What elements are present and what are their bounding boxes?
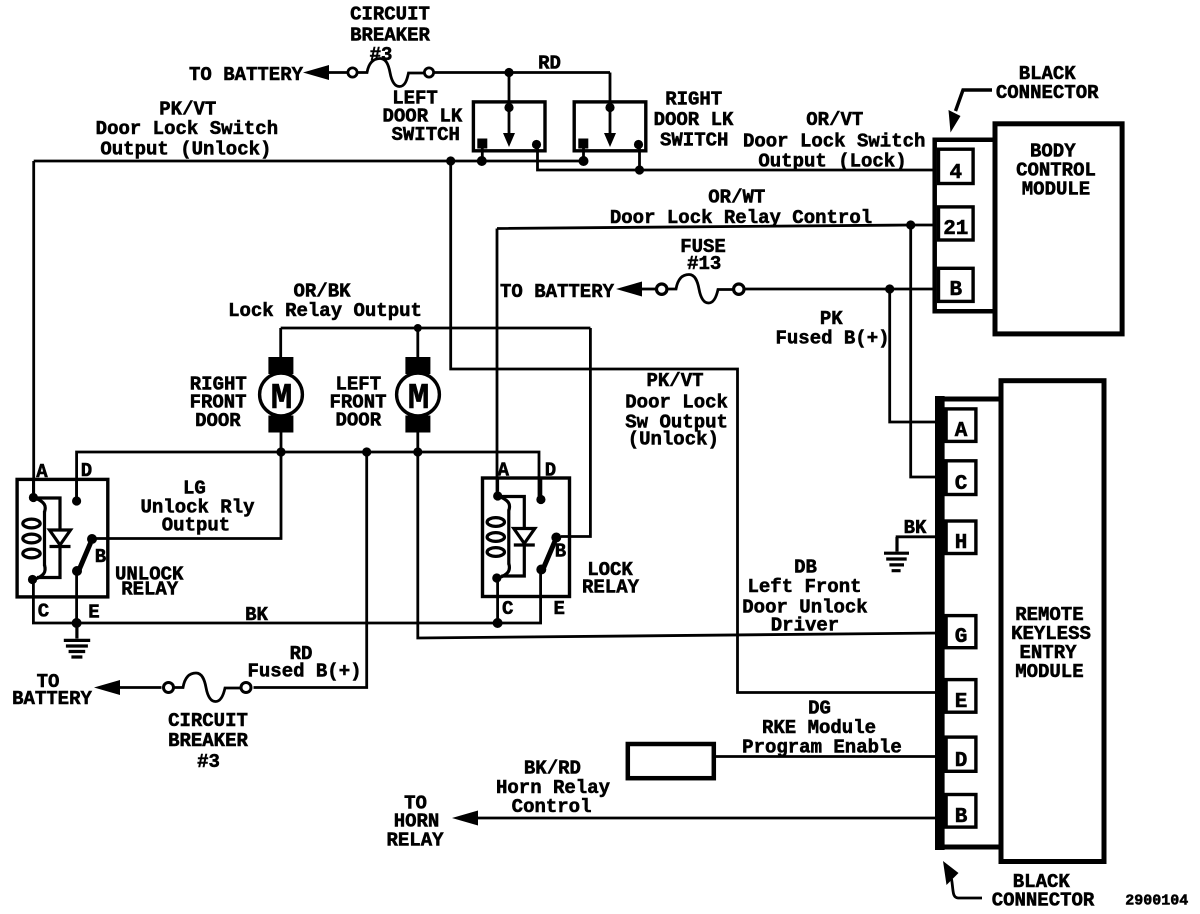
svg-text:M: M <box>271 378 293 419</box>
svg-text:Output: Output <box>162 515 230 537</box>
svg-text:Door Lock: Door Lock <box>625 392 728 414</box>
svg-text:#13: #13 <box>687 253 721 275</box>
svg-text:B: B <box>955 806 968 829</box>
svg-text:TO BATTERY: TO BATTERY <box>500 281 615 303</box>
svg-text:B: B <box>949 279 962 302</box>
svg-text:B: B <box>95 546 106 568</box>
svg-text:Fused B(+): Fused B(+) <box>247 661 361 683</box>
svg-text:E: E <box>88 602 99 624</box>
svg-text:BREAKER: BREAKER <box>168 730 248 752</box>
svg-text:#3: #3 <box>370 44 393 66</box>
svg-text:B: B <box>555 541 566 563</box>
svg-text:PK/VT: PK/VT <box>646 370 703 392</box>
svg-text:SWITCH: SWITCH <box>391 124 459 146</box>
svg-text:A: A <box>955 420 968 443</box>
svg-text:BK: BK <box>904 517 927 539</box>
svg-text:Door Lock Switch: Door Lock Switch <box>743 131 925 153</box>
svg-text:Program Enable: Program Enable <box>742 737 902 759</box>
svg-text:DOOR: DOOR <box>195 410 241 432</box>
svg-text:2900104: 2900104 <box>1125 893 1188 910</box>
svg-text:Driver: Driver <box>771 615 839 637</box>
svg-text:Door Lock Switch: Door Lock Switch <box>96 118 278 140</box>
svg-text:RELAY: RELAY <box>582 577 640 599</box>
svg-text:Output (Unlock): Output (Unlock) <box>100 139 271 161</box>
svg-text:Output (Lock): Output (Lock) <box>758 151 906 173</box>
svg-text:M: M <box>408 378 430 419</box>
svg-text:G: G <box>955 626 968 649</box>
svg-text:Door Lock Relay Control: Door Lock Relay Control <box>610 207 872 229</box>
svg-text:RELAY: RELAY <box>121 579 179 601</box>
svg-text:C: C <box>502 598 513 620</box>
svg-text:OR/VT: OR/VT <box>806 109 863 131</box>
svg-text:Fused B(+): Fused B(+) <box>775 328 889 350</box>
svg-text:#3: #3 <box>197 751 220 773</box>
svg-text:DOOR: DOOR <box>335 410 381 432</box>
svg-text:C: C <box>38 601 49 623</box>
svg-text:TO BATTERY: TO BATTERY <box>189 64 304 86</box>
svg-text:RELAY: RELAY <box>386 830 444 852</box>
svg-text:CONNECTOR: CONNECTOR <box>992 890 1095 912</box>
svg-text:RIGHT: RIGHT <box>665 89 722 111</box>
svg-text:BATTERY: BATTERY <box>12 688 92 710</box>
svg-text:C: C <box>955 473 968 496</box>
svg-text:OR/WT: OR/WT <box>708 187 765 209</box>
svg-text:Left Front: Left Front <box>747 576 861 598</box>
svg-text:BK: BK <box>245 604 268 626</box>
svg-text:CIRCUIT: CIRCUIT <box>350 4 430 26</box>
svg-text:D: D <box>545 460 556 482</box>
svg-text:SWITCH: SWITCH <box>660 130 728 152</box>
svg-text:4: 4 <box>949 162 962 185</box>
svg-text:MODULE: MODULE <box>1015 661 1083 683</box>
svg-text:E: E <box>955 691 968 714</box>
svg-text:Control: Control <box>512 796 592 818</box>
svg-text:21: 21 <box>943 218 968 241</box>
svg-text:CONNECTOR: CONNECTOR <box>996 82 1099 104</box>
svg-text:RD: RD <box>538 53 561 75</box>
svg-text:CIRCUIT: CIRCUIT <box>168 710 248 732</box>
svg-text:(Unlock): (Unlock) <box>628 429 719 451</box>
svg-text:D: D <box>955 750 968 773</box>
svg-text:Lock Relay Output: Lock Relay Output <box>228 300 422 322</box>
svg-text:MODULE: MODULE <box>1022 179 1090 201</box>
svg-text:E: E <box>553 598 564 620</box>
svg-text:H: H <box>955 532 968 555</box>
svg-text:D: D <box>81 460 92 482</box>
svg-text:DOOR LK: DOOR LK <box>654 109 734 131</box>
svg-text:A: A <box>498 460 510 482</box>
svg-text:A: A <box>36 461 48 483</box>
